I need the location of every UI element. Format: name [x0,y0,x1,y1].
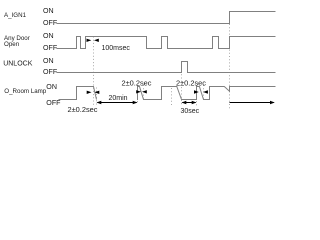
svg-text:30sec: 30sec [181,108,200,115]
svg-text:20min: 20min [109,95,128,102]
signal A_IGN1 waveform [57,12,276,24]
signal O_Room Lamp waveform part 2 (rises, fades, pulses, stays on) [138,87,276,101]
dashed guide x=196.5 (30sec end / lamp rise) [196,85,198,106]
svg-text:2±0.2sec: 2±0.2sec [122,78,152,87]
arrow lamp stays on after IGN (right pointing) [230,101,275,104]
signal O_Room Lamp waveform part 1 (on, fade 2sec) [59,87,97,100]
dashed guide x=203.5 (lamp fade4 end) [203,85,205,101]
svg-text:OFF: OFF [43,44,58,52]
svg-text:OFF: OFF [46,99,61,107]
svg-text:ON: ON [46,83,57,91]
dimension arrow 30sec (double headed) [182,101,197,104]
dimension arrows fade4 2sec (converging) [194,90,208,93]
dashed guide x=93.5 (100msec left / lamp fade1 start) [93,37,95,106]
svg-text:ON: ON [43,57,54,65]
dashed guide x=96.5 (100msec right / 20min start) [96,88,98,106]
dashed guide x=229.5 (ignition on event) [229,24,231,109]
signal UNLOCK waveform [57,62,276,73]
dashed guide x=171.5 (lamp pre-unlock mark) [171,88,173,107]
svg-text:OFF: OFF [43,68,58,76]
svg-text:Open: Open [4,41,20,48]
svg-text:OFF: OFF [43,19,58,27]
svg-text:100msec: 100msec [102,45,131,52]
dimension arrows fade2 2sec (converging) [136,90,147,93]
dashed guide x=143.5 (lamp fade2 end) [143,85,145,101]
svg-text:2±0.2sec: 2±0.2sec [68,105,98,114]
svg-text:UNLOCK: UNLOCK [3,61,33,68]
svg-text:ON: ON [43,32,54,40]
dimension arrows 100msec (door row, converging) [87,39,99,42]
svg-text:A_IGN1: A_IGN1 [4,12,27,19]
dashed guide x=137.5 (20min end / lamp rise) [137,85,139,104]
dimension arrows fade1 2sec (lamp row, converging) [87,91,100,94]
svg-text:2±0.2sec: 2±0.2sec [176,78,206,87]
svg-text:O_Room Lamp: O_Room Lamp [4,88,47,95]
svg-text:ON: ON [43,7,54,15]
dimension arrow 20min (double headed) [97,101,138,104]
dashed guide x=181.5 (UNLOCK rise / 30sec start) [181,62,183,106]
signal Any Door Open waveform [57,37,276,49]
